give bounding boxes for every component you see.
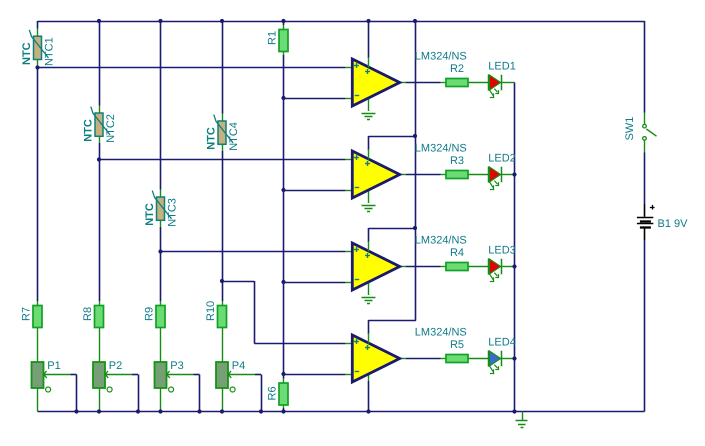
wire column 4: node D down to R10 [222,281,224,301]
label LM324/NS for U4 [415,327,467,339]
wire R7 leads and P1 leads [37,301,39,412]
wire top rail corner to SW1 [644,21,646,113]
wire op-amp U3 V- pin to ground [368,282,370,295]
battery B1 9V [637,204,688,240]
potentiometer P3 [155,360,184,392]
wire P3 wiper to ground rail [167,375,200,412]
resistor R8 [82,306,104,328]
resistor R7 [20,306,42,328]
wire P1 wiper to ground rail [44,375,77,412]
resistor R4 [446,247,468,271]
junction dots bottom rail [74,409,516,413]
svg-text:LM324/NS: LM324/NS [415,143,467,155]
junction dots top rail [97,19,417,23]
ground symbol under op-amp U1 [362,114,376,120]
svg-text:NTC4: NTC4 [228,122,240,151]
svg-text:LM324/NS: LM324/NS [415,327,467,339]
svg-text:NTC: NTC [21,42,33,65]
wire node B to op-amp U2 +input [99,159,354,161]
wire SW1 to battery B1 [644,153,646,205]
wire R10 leads and P4 leads [222,301,224,412]
svg-text:P2: P2 [109,360,122,372]
wire R1 column: top rail to R1 [283,21,285,30]
wire LED3 cathode to LED column [502,266,515,268]
wire column 2: node B down to R8 [99,160,101,302]
wire LED1 cathode to LED column [502,82,515,84]
wire R4 to LED3 [468,266,489,268]
wire op-amp U2 V- pin to ground [368,190,370,203]
op-amp U3 LM324/NS [352,241,399,290]
resistor R6 [266,383,288,405]
svg-text:R9: R9 [143,307,155,321]
svg-text:R2: R2 [450,63,464,75]
thermistor NTC4 [205,114,240,151]
wire op-amp U1 V+ pin to top rail [368,21,370,58]
wire op-amp U1 output to R2 [400,82,446,84]
svg-text:NTC: NTC [82,119,94,142]
svg-text:NTC3: NTC3 [167,198,179,227]
svg-text:NTC: NTC [144,203,156,226]
label LM324/NS for U1 [415,51,467,63]
wire NTC1 bottom lead to node [37,66,39,68]
wire reference net to op-amp U1 -input [284,98,354,100]
svg-text:R7: R7 [20,307,32,321]
wire P4 wiper to ground rail [228,375,262,412]
junction dots NTC nodes [35,65,224,283]
label LED2 [488,153,516,165]
svg-text:NTC2: NTC2 [105,114,117,143]
wire R6 bottom to ground rail [283,404,285,412]
svg-text:NTC1: NTC1 [44,37,56,66]
svg-text:LED3: LED3 [488,245,516,257]
svg-text:SW1: SW1 [624,117,636,141]
wire node A to op-amp U1 +input [38,67,354,69]
svg-text:R8: R8 [82,307,94,321]
svg-text:B1 9V: B1 9V [658,218,689,230]
wire op-amp U2 output to R3 [400,174,446,176]
thermistor NTC3 [144,190,179,227]
wire V+ tap to op-amp U3 [369,228,416,242]
wire column 2: top rail to NTC2 [99,21,101,106]
wire V+ corner down to op-amp U4 [368,320,370,334]
potentiometer P2 [93,360,122,392]
svg-text:R10: R10 [205,301,217,321]
wire reference net to op-amp U4 -input [284,374,354,376]
svg-text:P3: P3 [170,360,183,372]
label LED3 [488,245,516,257]
svg-text:LED2: LED2 [488,153,516,165]
resistor R1 [266,30,288,52]
label LED4 [488,337,516,349]
wire P2 wiper to ground rail [105,375,139,412]
wire R9 leads and P3 leads [160,301,162,412]
wire battery B1 to ground rail [644,240,646,412]
ground symbol on bottom rail [516,412,528,428]
wire op-amp U4 V- pin to ground rail [368,374,370,412]
resistor R5 [446,339,468,363]
ground symbol under op-amp U3 [362,298,376,304]
wire LED4 cathode to LED column [502,358,515,360]
wire top power rail [38,21,645,23]
svg-text:R6: R6 [266,386,278,400]
svg-text:P1: P1 [47,360,60,372]
op-amp U2 LM324/NS [352,149,399,198]
wire column 4: top rail to NTC4 [222,21,224,114]
op-amp U1 LM324/NS [352,57,399,106]
LED1 [489,75,502,98]
op-amp U4 LM324/NS [352,333,399,382]
resistor R9 [143,306,165,328]
svg-text:LED1: LED1 [488,61,516,73]
svg-text:LM324/NS: LM324/NS [415,51,467,63]
svg-text:P4: P4 [232,360,245,372]
wire R5 to LED4 [468,358,489,360]
svg-text:R4: R4 [450,247,464,259]
wire R8 leads and P2 leads [99,301,101,412]
thermistor NTC2 [82,106,117,143]
svg-text:LM324/NS: LM324/NS [415,235,467,247]
wire R2 to LED1 [468,82,489,84]
label LM324/NS for U3 [415,235,467,247]
junction dots LED column [512,172,516,360]
wire V+ tap to op-amp U2 [369,136,416,150]
wire node D jog to op-amp U4 +input [222,281,354,344]
ground symbol under op-amp U2 [362,206,376,212]
wire NTC3 bottom lead to node [160,227,162,252]
potentiometer P1 [32,360,61,392]
wire R3 to LED2 [468,174,489,176]
potentiometer P4 [216,360,245,392]
wire op-amp U3 output to R4 [400,266,446,268]
wire reference net to op-amp U2 -input [284,190,354,192]
LED3 [489,259,502,282]
svg-text:NTC: NTC [205,127,217,150]
wire column 3: node C down to R9 [160,252,162,302]
wire NTC2 bottom lead to node [99,143,101,160]
svg-text:R5: R5 [450,339,464,351]
wire LED output column down to ground rail [514,83,516,412]
wire bottom ground rail [38,411,645,413]
wire column 1: top rail to NTC1 [37,21,39,29]
resistor R3 [446,155,468,179]
resistor R10 [205,301,227,328]
thermistor NTC1 [21,29,56,66]
junction dots reference column [281,96,285,376]
wire LED2 cathode to LED column [502,174,515,176]
wire reference net to op-amp U3 -input [284,282,354,284]
svg-text:R3: R3 [450,155,464,167]
resistor R2 [446,63,468,87]
wire node C to op-amp U3 +input [161,251,354,253]
LED4 [489,351,502,374]
wire V+ distribution column [369,21,416,321]
label LM324/NS for U2 [415,143,467,155]
wire R1 bottom down to R6 (reference net) [283,51,285,384]
switch SW1 [624,113,657,153]
LED2 [489,167,502,190]
wire op-amp U1 V- pin to ground [368,98,370,111]
wire column 3: top rail to NTC3 [160,21,162,190]
wire column 1: node A down to R7 [37,68,39,302]
wire op-amp U4 output to R5 [400,358,446,360]
wire NTC4 bottom lead to node [222,151,224,281]
svg-text:LED4: LED4 [488,337,516,349]
junction dots V+ distribution [413,134,417,230]
svg-text:R1: R1 [266,31,278,45]
label LED1 [488,61,516,73]
